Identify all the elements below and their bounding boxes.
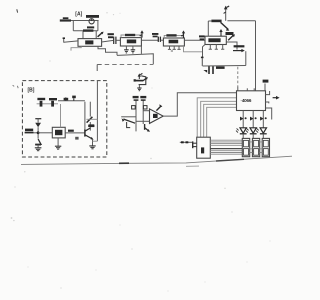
connector J1 — [180, 141, 197, 148]
wire down to Q6 base rail — [84, 102, 86, 130]
wire vertical right into U1 — [97, 21, 99, 31]
analog switch U7 4066 — [237, 88, 266, 110]
wire input lead U1 — [63, 37, 78, 42]
label C5 value — [216, 66, 225, 69]
wire vertical left of R2 — [72, 21, 74, 31]
resistor R6 feedback — [208, 20, 221, 23]
label 100k — [234, 45, 245, 47]
wire U7 pin to Q9 — [242, 111, 244, 128]
transistor Q1 — [98, 32, 104, 37]
wire U8 to relays 6 — [210, 150, 242, 152]
zener D3 — [87, 102, 93, 131]
wire bus B — [201, 101, 237, 137]
SCR D5 — [236, 128, 247, 139]
label box right — [143, 106, 147, 109]
wire top row stage A — [71, 20, 99, 22]
transistor Q6 — [85, 125, 94, 140]
arrow to cap rail — [233, 49, 246, 66]
wire U8 to relays 5 — [210, 148, 242, 150]
resistor R10 hook — [127, 122, 131, 128]
capacitor C4 rail — [140, 96, 146, 124]
wire U4 output — [226, 42, 237, 50]
transistor Q7 — [121, 117, 136, 123]
relay K2 — [252, 138, 259, 156]
wire right rail vertical — [255, 21, 257, 91]
+V arrow U4 top — [224, 6, 230, 21]
wire TP row — [58, 96, 85, 101]
transistor Q3 at output — [228, 34, 235, 40]
ground stage2 a — [124, 46, 129, 53]
wire U8 to relays 7 — [210, 152, 242, 154]
gate arrow Q11 — [260, 117, 267, 121]
dashed wire to box B — [97, 63, 153, 65]
wire U3 bottom to U4 row — [184, 46, 203, 52]
relay K3 — [262, 138, 269, 156]
relay K1 — [242, 138, 249, 156]
diode D1 — [35, 119, 41, 139]
timer U5 — [52, 127, 65, 138]
wire U3 to U4 — [184, 39, 205, 41]
label box left — [132, 106, 136, 109]
label R5 2k — [199, 35, 205, 40]
label TP1 — [108, 33, 114, 38]
wire U8 to relays 1 — [210, 139, 242, 141]
resistor R4 feedback — [164, 35, 183, 38]
gate arrow Q10 — [250, 117, 257, 121]
wire input to node — [34, 132, 39, 134]
resistor R2 — [73, 26, 98, 30]
driver U8 — [197, 137, 211, 158]
SCR D7 — [256, 128, 267, 139]
+V arrow stage2 — [140, 30, 144, 37]
wire U5 out to Q6 base — [65, 132, 85, 134]
+V arrow U4 mid — [219, 29, 222, 36]
wire emitter to feedback rail — [93, 140, 98, 142]
wire stage2 to C2 — [141, 39, 158, 41]
wire feedback inside B — [96, 81, 98, 142]
op-amp U3 — [163, 38, 184, 46]
stray mark top-left — [16, 9, 19, 12]
wire stub into box B — [96, 65, 98, 72]
wire U8 to relays 3 — [210, 143, 242, 145]
wire bottom bus — [21, 156, 292, 164]
wire K2-K3 links — [260, 142, 263, 153]
dashed box B — [22, 81, 106, 157]
wire feedback to right rail — [227, 20, 255, 22]
capacitor C1 — [102, 37, 121, 44]
wire U8 to relays 8 — [210, 153, 242, 155]
wire zener top link — [86, 118, 97, 120]
op-amp U4 — [205, 36, 226, 44]
wire cap row — [203, 65, 246, 68]
tick top of row — [201, 57, 204, 59]
wire U7 pin to Q10 — [252, 111, 254, 128]
op-amp U1 — [78, 39, 102, 47]
pin stub U7 right 1 — [266, 91, 270, 95]
label A4 — [75, 137, 78, 140]
wire U8 to relays 4 — [210, 144, 242, 146]
+V arrow stage3 — [181, 30, 185, 38]
wire U1 out down — [98, 46, 117, 55]
pin stub U7 right 2 — [266, 102, 269, 103]
wire U4 feedback vertical — [207, 21, 209, 36]
ground U5 — [55, 146, 61, 149]
pin stub below U1 — [71, 46, 81, 50]
wire stage2 bottom right — [140, 46, 142, 54]
node dot — [37, 131, 40, 134]
pin stub U7 top — [263, 80, 269, 91]
resistor R1 — [60, 17, 71, 20]
wire down left to cap row — [203, 45, 206, 67]
op-amp U2 — [120, 38, 141, 46]
wire bottom bus dark segment 1 — [119, 162, 129, 164]
svg-text:[B]: [B] — [28, 88, 35, 94]
ground D2 — [35, 148, 42, 151]
arrow +V right — [273, 96, 280, 100]
wire corner from stage2 area — [117, 54, 153, 65]
wire C2 to U3 — [161, 39, 164, 41]
label 4k — [226, 32, 234, 35]
transistor Q8 — [145, 124, 150, 132]
pin stubs under U4 — [209, 45, 225, 50]
capacitor C3 rail — [133, 96, 139, 131]
pin stubs under U3 — [168, 46, 181, 51]
capacitor C2 — [152, 33, 160, 42]
wire U7 pin to Q11 — [262, 111, 264, 128]
wire bus C — [204, 104, 237, 137]
comparator U6 — [150, 109, 164, 124]
wire bus D — [207, 107, 237, 137]
wire U5 bottom pin — [57, 138, 59, 146]
svg-text:·4066: ·4066 — [241, 98, 252, 103]
label INPUT — [25, 129, 34, 134]
noise specks — [11, 7, 271, 292]
wire dashed into U7 top — [237, 67, 239, 91]
stray marks left of box B — [13, 85, 19, 88]
wire node to U5 — [38, 132, 52, 134]
wire Q6 emitter down — [92, 139, 94, 146]
wire bus A — [197, 98, 236, 137]
pin stub U7 right 3 — [266, 108, 272, 120]
zener D4 — [156, 105, 162, 111]
gate arrow Q9 — [240, 117, 247, 121]
transistor Q2 — [221, 22, 230, 30]
ground Q4 — [137, 85, 141, 91]
wire U5 top pin — [60, 104, 62, 127]
resistor R3 feedback — [121, 35, 141, 38]
wire U6 +in — [143, 110, 149, 112]
wire K1-K2 links — [250, 142, 253, 153]
transistor Q4 bias circuit — [134, 73, 148, 84]
label TZ — [89, 124, 95, 127]
wire bottom bus dark segment 2 — [216, 159, 244, 161]
wire bottom bus stub — [186, 165, 199, 167]
ground stage2 b — [131, 46, 136, 53]
wire U6 output to 4066 — [163, 93, 236, 116]
ground Q6 — [89, 146, 95, 149]
wire U6 -in — [136, 120, 150, 122]
diode D2 — [35, 139, 41, 148]
trimmer RV1 — [86, 15, 99, 24]
label R9 1k — [68, 130, 74, 132]
resistor R7 — [37, 98, 58, 107]
SCR D6 — [246, 128, 257, 139]
wire U8 to relays 2 — [210, 141, 242, 143]
resistor R8 — [49, 98, 57, 107]
svg-text:[A]: [A] — [75, 11, 82, 17]
capacitor C5 — [203, 66, 213, 74]
